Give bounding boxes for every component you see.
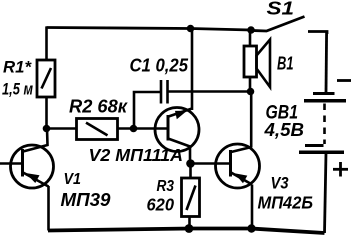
wire bottom rail <box>48 229 325 234</box>
wire R2 right lead <box>118 127 135 130</box>
node dot C1 R2 V2 base <box>130 125 138 133</box>
speaker B1 <box>244 40 270 88</box>
wire V1 emitter to bottom rail <box>47 186 50 231</box>
capacitor C1 <box>161 80 168 104</box>
svg-text:S1: S1 <box>267 0 295 19</box>
label minus <box>337 79 351 82</box>
svg-text:R3: R3 <box>157 178 175 195</box>
transistor V2 <box>155 108 199 152</box>
wire node to V3 base <box>190 162 231 165</box>
node dot V2 collector R3 V3 base <box>186 159 195 168</box>
svg-text:В1: В1 <box>277 54 294 74</box>
label plus <box>333 162 348 177</box>
transistor V1 <box>0 129 54 189</box>
resistor R2 <box>77 119 118 140</box>
wire V2 emitter lead from top rail <box>191 29 194 111</box>
svg-text:V1: V1 <box>64 171 82 188</box>
svg-text:C1 0,25: C1 0,25 <box>130 56 189 76</box>
svg-text:4,5В: 4,5В <box>263 120 304 140</box>
svg-text:1,5 м: 1,5 м <box>2 81 33 99</box>
node dot R1 R2 V1 <box>43 125 51 133</box>
transistor V3 <box>216 144 260 188</box>
wire V3 emitter to bottom rail <box>251 185 254 229</box>
resistor R3 <box>182 178 200 217</box>
wire speaker B1 top lead <box>249 30 252 46</box>
wire R2 left lead <box>47 127 77 130</box>
svg-text:МП42Б: МП42Б <box>258 193 314 213</box>
wire R3 bottom lead <box>188 217 191 229</box>
node dot R3 bottom rail <box>185 224 194 233</box>
wire V2 base lead <box>134 127 169 130</box>
wire V3 collector lead <box>250 92 253 148</box>
svg-text:V2 МП111А: V2 МП111А <box>89 145 184 165</box>
svg-text:620: 620 <box>147 195 175 215</box>
svg-text:R2 68к: R2 68к <box>69 97 128 117</box>
svg-text:R1*: R1* <box>3 58 32 77</box>
wire left rail to R1 <box>45 26 48 60</box>
resistor R1 <box>37 60 55 97</box>
wire R3 top lead <box>189 164 192 179</box>
wire battery bottom lead <box>325 153 327 234</box>
node dot top rail speaker <box>247 26 255 34</box>
switch S1 <box>252 17 327 35</box>
wire C1 right lead to node <box>168 90 251 93</box>
node dot V3 emitter bottom rail <box>247 224 255 232</box>
wire C1 left lead <box>134 92 161 129</box>
wire V2 collector to node <box>189 147 192 164</box>
node dot C1 speaker V3 collector <box>247 88 255 96</box>
svg-text:МП39: МП39 <box>61 190 111 210</box>
wire R1 bottom lead <box>45 97 48 129</box>
svg-text:V3: V3 <box>271 175 289 193</box>
wire top rail <box>47 28 252 31</box>
wire right rail to battery <box>325 32 328 93</box>
wire speaker bottom lead <box>249 77 252 92</box>
node dot top rail V2 <box>187 25 195 33</box>
battery GB1 <box>299 94 346 153</box>
